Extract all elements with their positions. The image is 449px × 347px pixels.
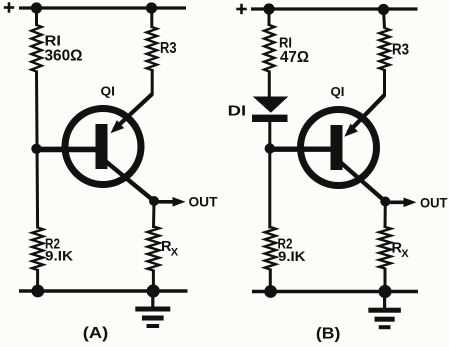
svg-text:9.IK: 9.IK: [278, 249, 306, 264]
svg-text:X: X: [171, 246, 179, 258]
svg-text:OUT: OUT: [189, 195, 219, 210]
svg-text:X: X: [401, 248, 409, 260]
svg-text:47Ω: 47Ω: [280, 49, 309, 66]
svg-text:R3: R3: [392, 42, 409, 59]
svg-text:9.IK: 9.IK: [45, 248, 73, 263]
svg-text:360Ω: 360Ω: [45, 48, 83, 65]
svg-text:QI: QI: [331, 84, 345, 99]
svg-text:(A): (A): [83, 325, 109, 342]
svg-text:DI: DI: [228, 102, 247, 119]
svg-text:QI: QI: [101, 84, 116, 99]
svg-text:OUT: OUT: [420, 195, 448, 210]
svg-text:(B): (B): [316, 326, 341, 343]
svg-text:R3: R3: [160, 40, 177, 57]
